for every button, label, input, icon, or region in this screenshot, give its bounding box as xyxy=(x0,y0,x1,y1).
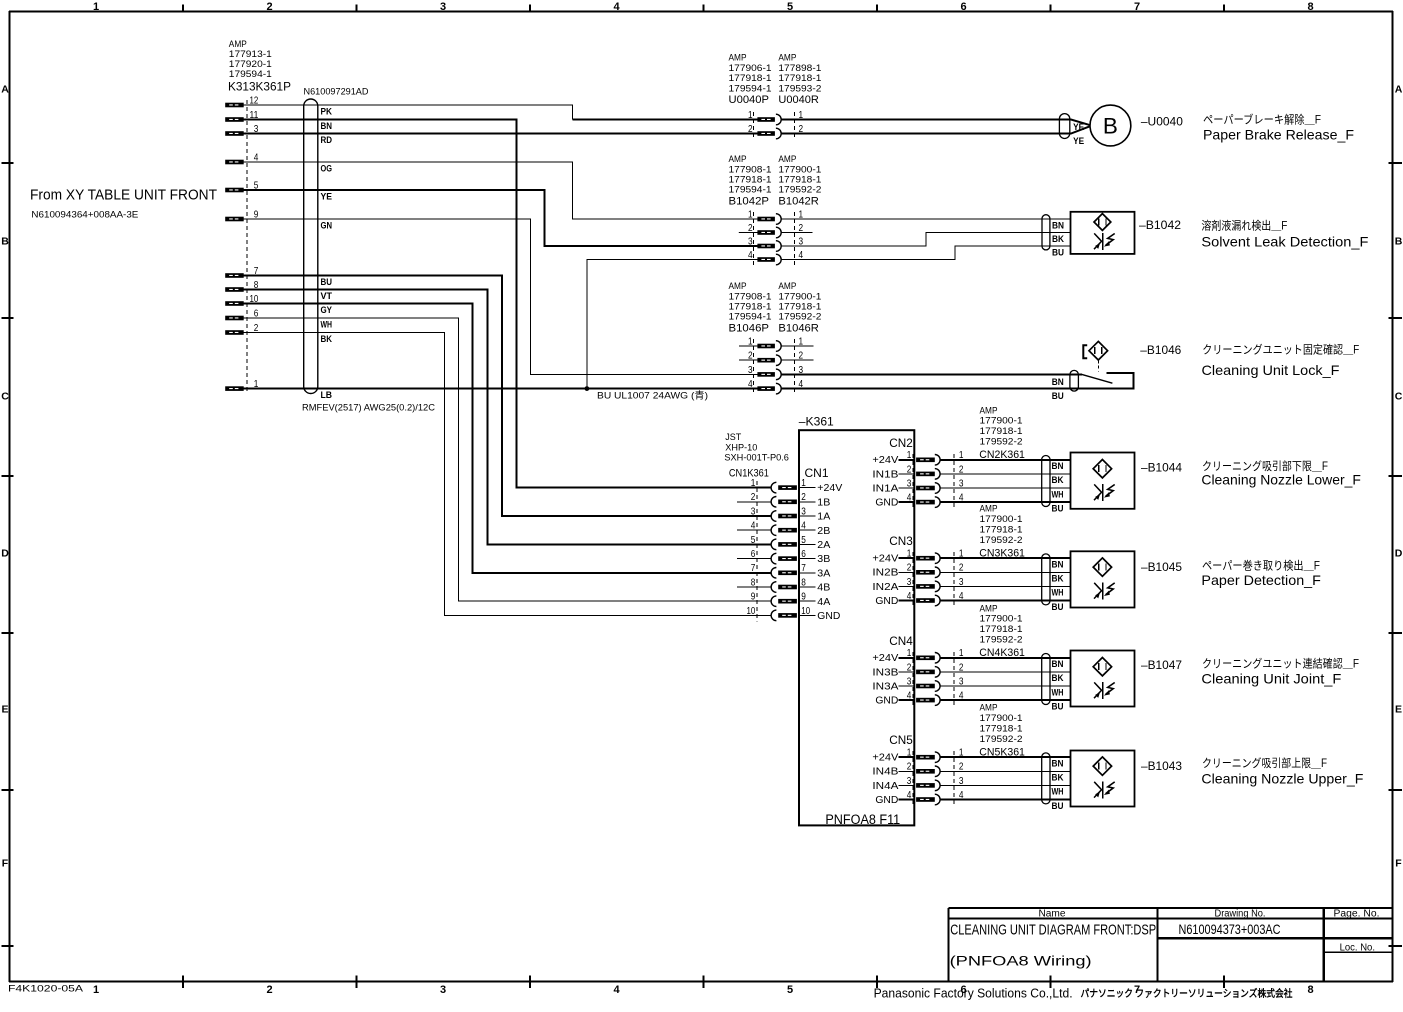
connector CN1 pin 8 (4B) xyxy=(737,576,831,593)
wire BN B1047 sensor pin 1 xyxy=(940,657,1070,659)
cable oval B1044 sensor wires xyxy=(1042,456,1050,507)
sensor B1043 photoelectric symbol xyxy=(1094,782,1115,799)
svg-text:Paper Detection_F: Paper Detection_F xyxy=(1201,572,1321,588)
svg-text:1: 1 xyxy=(748,335,753,347)
svg-text:2: 2 xyxy=(266,1,272,13)
svg-text:IN1B: IN1B xyxy=(872,469,898,480)
svg-text:8: 8 xyxy=(1307,1,1313,13)
svg-text:3: 3 xyxy=(751,505,756,517)
svg-text:AMP: AMP xyxy=(229,39,247,49)
svg-text:BK: BK xyxy=(1052,673,1064,684)
wire GN pin9 to B1046P pin3 xyxy=(244,219,758,374)
sensor B1042 proximity diamond symbol xyxy=(1094,214,1111,231)
lock switch B1046 bracket [ xyxy=(1083,345,1087,358)
svg-text:D: D xyxy=(1395,548,1403,560)
svg-text:177918-1: 177918-1 xyxy=(778,302,821,312)
svg-text:CN1: CN1 xyxy=(805,468,829,480)
svg-text:BU: BU xyxy=(321,277,333,288)
svg-text:179592-2: 179592-2 xyxy=(980,734,1023,744)
svg-text:From XY TABLE UNIT FRONT: From XY TABLE UNIT FRONT xyxy=(30,186,217,203)
connector CN3 P-side dashed line xyxy=(912,552,914,606)
svg-text:Name: Name xyxy=(1039,909,1066,920)
module K361 block outline (PNFOA8 F11) xyxy=(799,430,914,825)
svg-text:YE: YE xyxy=(321,191,333,202)
wire VT pin8 to CN1 pin5 (2A) xyxy=(244,290,772,545)
svg-text:BN: BN xyxy=(1052,659,1064,670)
svg-text:4: 4 xyxy=(907,690,912,702)
svg-text:RMFEV(2517) AWG25(0.2)/12C: RMFEV(2517) AWG25(0.2)/12C xyxy=(302,403,435,414)
svg-text:IN3B: IN3B xyxy=(872,667,898,678)
connector CN2 R-side dashed line xyxy=(953,454,955,508)
svg-text:GND: GND xyxy=(875,596,898,607)
connector CN5 pin 2 (IN4B) xyxy=(872,761,963,778)
svg-text:BK: BK xyxy=(1052,574,1064,585)
svg-text:BN: BN xyxy=(1052,461,1064,472)
svg-text:2: 2 xyxy=(266,984,272,996)
svg-text:3: 3 xyxy=(907,675,912,687)
connector K313K361P body dashed line xyxy=(246,100,248,394)
svg-text:Cleaning Nozzle Upper_F: Cleaning Nozzle Upper_F xyxy=(1201,770,1363,786)
svg-text:177900-1: 177900-1 xyxy=(980,416,1023,426)
connector CN1 pin 9 (4A) xyxy=(751,591,831,608)
svg-text:AMP: AMP xyxy=(980,703,998,713)
svg-text:1A: 1A xyxy=(817,512,830,523)
svg-text:2: 2 xyxy=(907,661,912,673)
svg-text:CN2: CN2 xyxy=(889,438,913,450)
svg-text:Paper Brake Release_F: Paper Brake Release_F xyxy=(1203,127,1354,143)
svg-text:179594-1: 179594-1 xyxy=(229,69,272,79)
connector CN2 pin 3 (IN1A) xyxy=(872,477,963,494)
svg-text:A: A xyxy=(1395,84,1403,96)
wire color labels BN BK WH BU (B1044) xyxy=(1052,461,1064,514)
svg-text:N610094364+008AA-3E: N610094364+008AA-3E xyxy=(31,210,138,221)
svg-text:+24V: +24V xyxy=(872,753,898,764)
cable oval B1043 sensor wires xyxy=(1042,753,1050,804)
svg-text:GY: GY xyxy=(321,305,333,316)
wire U0040R pin2 to solenoid B xyxy=(781,126,1090,133)
svg-text:OG: OG xyxy=(321,163,333,174)
sensor B1044 photoelectric symbol xyxy=(1094,484,1115,501)
svg-text:4: 4 xyxy=(613,1,620,13)
svg-text:GND: GND xyxy=(875,696,898,707)
svg-text:AMP: AMP xyxy=(778,154,796,164)
svg-text:1: 1 xyxy=(93,984,99,996)
wire WH B1044 sensor pin 3 xyxy=(940,487,1070,489)
connector K313K361P pin 8 (VT) xyxy=(225,279,258,292)
connector CN3K361 part numbers AMP 177900-1 177918-1 179592-2 xyxy=(980,504,1023,545)
svg-text:4: 4 xyxy=(907,590,912,602)
column labels top 1-8 xyxy=(93,1,1314,13)
connector B1046 pin 4 xyxy=(739,378,803,394)
wire BU B1047 sensor pin 4 xyxy=(940,699,1070,701)
svg-text:2: 2 xyxy=(907,562,912,574)
svg-text:E: E xyxy=(1395,704,1402,716)
svg-text:クリーニングユニット固定確認＿F: クリーニングユニット固定確認＿F xyxy=(1202,342,1359,356)
svg-text:B1046R: B1046R xyxy=(778,322,819,334)
wire color labels BN BK WH BU (B1043) xyxy=(1052,759,1064,812)
svg-text:AMP: AMP xyxy=(980,405,998,415)
cable oval B1045 sensor wires xyxy=(1042,554,1050,605)
svg-text:CN1K361: CN1K361 xyxy=(729,468,769,480)
connector CN4 R-side dashed line xyxy=(953,652,955,706)
connector K313K361P part numbers AMP 177913-1 177920-1 179594-1 xyxy=(229,39,272,79)
svg-text:5: 5 xyxy=(787,1,793,13)
svg-text:クリーニング吸引部上限＿F: クリーニング吸引部上限＿F xyxy=(1202,756,1327,770)
lock switch B1046 blade xyxy=(1082,374,1113,383)
svg-text:Cleaning Unit Joint_F: Cleaning Unit Joint_F xyxy=(1201,671,1341,687)
svg-text:179592-2: 179592-2 xyxy=(778,185,821,195)
connector CN1 pin 4 (2B) xyxy=(737,520,831,537)
svg-text:BN: BN xyxy=(1052,377,1064,388)
connector CN3 pin 3 (IN2A) xyxy=(872,576,963,593)
connector CN5 R-side dashed line xyxy=(953,751,955,805)
wire color labels PK BN RD OG YE GN BU VT GY WH BK LB xyxy=(321,106,333,401)
svg-text:C: C xyxy=(1,391,9,403)
svg-text:5: 5 xyxy=(751,534,756,546)
wire WH B1045 sensor pin 3 xyxy=(940,585,1070,587)
svg-text:AMP: AMP xyxy=(778,53,796,63)
grid row ticks right xyxy=(1389,163,1403,946)
svg-text:CLEANING UNIT DIAGRAM FRONT:DS: CLEANING UNIT DIAGRAM FRONT:DSP xyxy=(950,921,1156,938)
svg-text:IN1A: IN1A xyxy=(872,483,898,494)
wire B1042R pin4 to sensor BU xyxy=(781,246,1070,260)
svg-text:–U0040: –U0040 xyxy=(1141,115,1183,129)
wire LB pin1 to B1046P pin4 (BU bus) xyxy=(244,388,758,390)
wire WH B1047 sensor pin 3 xyxy=(940,685,1070,687)
svg-text:–B1047: –B1047 xyxy=(1141,658,1182,672)
connector K313K361P pin 7 (BU) xyxy=(225,265,258,278)
connector CN3 pin 2 (IN2B) xyxy=(872,562,963,579)
svg-text:Panasonic Factory Solutions Co: Panasonic Factory Solutions Co.,Ltd. xyxy=(874,987,1073,1001)
svg-text:8: 8 xyxy=(1307,984,1313,996)
svg-text:4: 4 xyxy=(613,984,620,996)
svg-text:177918-1: 177918-1 xyxy=(980,525,1023,535)
svg-text:BN: BN xyxy=(1052,560,1064,571)
connector U0040P part numbers AMP 177906-1 177918-1 179594-1 xyxy=(729,53,772,106)
svg-text:4A: 4A xyxy=(817,597,830,608)
connector B1042 pin 3 xyxy=(739,235,803,251)
wire BN B1045 sensor pin 1 xyxy=(940,557,1070,559)
sensor B1045 photoelectric symbol xyxy=(1094,583,1115,600)
junction dot BU bus xyxy=(585,386,590,391)
row labels left A-F xyxy=(1,84,9,870)
svg-text:B1042P: B1042P xyxy=(729,195,770,207)
svg-text:CN4: CN4 xyxy=(889,636,913,648)
svg-text:N610094373+003AC: N610094373+003AC xyxy=(1179,921,1281,937)
svg-text:WH: WH xyxy=(1052,489,1064,500)
svg-text:YE: YE xyxy=(1073,122,1084,133)
svg-text:179593-2: 179593-2 xyxy=(778,83,821,93)
svg-text:D: D xyxy=(1,548,9,560)
svg-text:177920-1: 177920-1 xyxy=(229,59,272,69)
connector pair B1042P/B1042R dashed lines xyxy=(753,212,794,266)
svg-text:Page. No.: Page. No. xyxy=(1334,909,1380,920)
svg-text:GND: GND xyxy=(875,498,898,509)
svg-text:CN3: CN3 xyxy=(889,536,913,548)
connector CN5 P-side dashed line xyxy=(912,751,914,805)
svg-text:C: C xyxy=(1395,391,1403,403)
wire BK B1045 sensor pin 2 xyxy=(940,571,1070,573)
svg-text:YE: YE xyxy=(1073,136,1084,147)
svg-text:177913-1: 177913-1 xyxy=(229,49,272,59)
lock switch B1046 actuator dashed link xyxy=(1097,360,1099,371)
svg-text:B: B xyxy=(1,236,9,248)
svg-text:10: 10 xyxy=(747,605,756,617)
connector B1042 pin 4 xyxy=(739,249,803,265)
svg-text:–B1045: –B1045 xyxy=(1141,560,1182,574)
connector CN2K361 part numbers AMP 177900-1 177918-1 179592-2 xyxy=(980,405,1023,446)
cable oval B1046 sensor wires xyxy=(1070,370,1079,391)
connector CN1K361 JST part numbers XHP-10 SXH-001T-P0.6 xyxy=(724,432,789,463)
sensor B1042 photoelectric symbol xyxy=(1094,233,1115,250)
svg-text:2B: 2B xyxy=(817,526,830,537)
connector pair U0040P/U0040R dashed lines xyxy=(753,112,794,140)
svg-text:BU: BU xyxy=(1052,602,1064,613)
connector CN5 pin 4 (GND) xyxy=(875,789,963,806)
svg-text:3: 3 xyxy=(907,576,912,588)
svg-text:179594-1: 179594-1 xyxy=(729,185,772,195)
wire color labels BN BK WH BU (B1047) xyxy=(1052,659,1064,712)
connector B1046 pin 3 xyxy=(739,364,803,380)
svg-text:U0040R: U0040R xyxy=(778,94,819,106)
connector CN5 pin 3 (IN4A) xyxy=(872,775,963,792)
connector CN1 pin 5 (2A) xyxy=(751,534,831,551)
svg-text:2A: 2A xyxy=(817,540,830,551)
svg-text:WH: WH xyxy=(321,319,333,330)
connector K313K361P pin 10 (GY) xyxy=(225,293,258,306)
svg-text:N610097291AD: N610097291AD xyxy=(304,87,369,98)
row labels right A-F xyxy=(1395,84,1403,870)
connector CN3 pin 4 (GND) xyxy=(875,590,963,607)
connector pair B1046P/B1046R dashed lines xyxy=(753,339,794,395)
svg-text:GND: GND xyxy=(875,795,898,806)
svg-text:XHP-10: XHP-10 xyxy=(725,442,757,452)
svg-text:3A: 3A xyxy=(817,568,830,579)
svg-text:3B: 3B xyxy=(817,554,830,565)
connector CN4K361 part numbers AMP 177900-1 177918-1 179592-2 xyxy=(980,603,1023,644)
svg-text:177900-1: 177900-1 xyxy=(980,514,1023,524)
svg-text:BN: BN xyxy=(1052,220,1064,231)
wire BN pin11 to CN1 pin1 (+24V) xyxy=(244,120,772,488)
svg-text:JST: JST xyxy=(725,432,741,442)
svg-text:AMP: AMP xyxy=(980,504,998,514)
svg-text:IN4A: IN4A xyxy=(872,781,898,792)
svg-text:IN4B: IN4B xyxy=(872,767,898,778)
svg-text:177900-1: 177900-1 xyxy=(778,291,821,301)
sensor B1045 proximity diamond symbol xyxy=(1093,558,1111,576)
svg-text:179592-2: 179592-2 xyxy=(980,635,1023,645)
svg-text:177900-1: 177900-1 xyxy=(980,713,1023,723)
connector B1046R part numbers AMP 177900-1 177918-1 179592-2 xyxy=(778,281,821,334)
svg-text:+24V: +24V xyxy=(872,653,898,664)
svg-text:WH: WH xyxy=(1052,588,1064,599)
sensor box B1042 xyxy=(1071,212,1135,254)
connector CN1 pin 7 (3A) xyxy=(751,562,831,579)
connector CN3 pin 1 (+24V) xyxy=(872,548,963,565)
connector CN5K361 part numbers AMP 177900-1 177918-1 179592-2 xyxy=(980,703,1023,744)
svg-text:4B: 4B xyxy=(817,583,830,594)
svg-text:7: 7 xyxy=(751,562,756,574)
connector CN1 pin 6 (3B) xyxy=(737,548,831,565)
svg-text:179594-1: 179594-1 xyxy=(729,83,772,93)
wire BU B1043 sensor pin 4 xyxy=(940,799,1070,801)
svg-text:K313K361P: K313K361P xyxy=(228,81,291,93)
connector K313K361P pin 9 (GN) xyxy=(225,208,258,221)
svg-text:Loc. No.: Loc. No. xyxy=(1340,942,1375,953)
svg-text:BU: BU xyxy=(1052,503,1064,514)
connector CN4 P-side dashed line xyxy=(912,652,914,706)
svg-text:AMP: AMP xyxy=(729,53,747,63)
svg-text:Cleaning Nozzle Lower_F: Cleaning Nozzle Lower_F xyxy=(1201,472,1361,488)
svg-text:1: 1 xyxy=(93,1,99,13)
svg-text:CN5: CN5 xyxy=(889,735,913,747)
svg-text:3: 3 xyxy=(440,984,446,996)
sensor B1043 proximity diamond symbol xyxy=(1093,757,1111,775)
svg-text:E: E xyxy=(1,704,8,716)
connector U0040 pin 1 xyxy=(739,109,803,125)
connector CN3 R-side dashed line xyxy=(953,552,955,606)
svg-text:AMP: AMP xyxy=(729,154,747,164)
wire BK pin2 to CN1 pin10 (GND) xyxy=(244,333,772,616)
svg-text:B: B xyxy=(1395,236,1403,248)
column labels bottom 1-8 xyxy=(93,984,1314,996)
wire BK B1044 sensor pin 2 xyxy=(940,473,1070,475)
wire BK B1043 sensor pin 2 xyxy=(940,770,1070,772)
connector B1046 pin 1 (unconnected stub) xyxy=(739,335,814,351)
svg-text:177900-1: 177900-1 xyxy=(778,164,821,174)
svg-text:179592-2: 179592-2 xyxy=(980,535,1023,545)
connector B1042 pin 2 (unconnected stub) xyxy=(739,222,813,238)
solenoid U0040 circle B (paper brake) xyxy=(1090,105,1131,146)
svg-text:BU: BU xyxy=(1052,391,1064,402)
wire BU B1044 sensor pin 4 xyxy=(940,501,1070,503)
svg-text:2: 2 xyxy=(751,491,756,503)
cable oval B1047 sensor wires xyxy=(1042,654,1050,705)
wire B1046R pin3 BN to lock switch xyxy=(781,373,1082,375)
svg-text:2: 2 xyxy=(748,350,753,362)
connector CN1 pin 1 (+24V) xyxy=(751,477,843,494)
svg-text:AMP: AMP xyxy=(729,281,747,291)
svg-text:–B1046: –B1046 xyxy=(1140,343,1181,357)
svg-text:4: 4 xyxy=(907,789,912,801)
svg-text:U0040P: U0040P xyxy=(729,94,770,106)
svg-text:177918-1: 177918-1 xyxy=(980,624,1023,634)
sensor box B1044 xyxy=(1071,453,1135,509)
cable bundle oval N610097291AD xyxy=(304,99,318,394)
connector CN4 pin 2 (IN3B) xyxy=(872,661,963,678)
svg-text:PK: PK xyxy=(321,106,333,117)
connector K313K361P pin 1 (LB) xyxy=(225,378,258,391)
connector CN2 P-side dashed line xyxy=(912,454,914,508)
svg-text:1: 1 xyxy=(751,477,756,489)
svg-text:A: A xyxy=(1,84,9,96)
wire YE pin5 to B1042P pin3 xyxy=(244,190,758,246)
connector U0040R part numbers AMP 177898-1 177918-1 179593-2 xyxy=(778,53,821,106)
svg-text:F4K1020-05A: F4K1020-05A xyxy=(8,983,84,994)
svg-text:2: 2 xyxy=(907,463,912,475)
svg-text:BN: BN xyxy=(1052,759,1064,770)
title block outline xyxy=(949,908,1393,982)
svg-text:3: 3 xyxy=(440,1,446,13)
sensor B1047 proximity diamond symbol xyxy=(1093,658,1111,676)
cable oval B1042 sensor wires xyxy=(1042,215,1050,250)
svg-text:PNFOA8 F11: PNFOA8 F11 xyxy=(825,812,900,827)
wire WH pin6 to CN1 pin9 (4A) xyxy=(244,318,772,601)
connector B1042 pin 1 xyxy=(739,208,803,224)
svg-text:1: 1 xyxy=(907,449,912,461)
svg-text:BK: BK xyxy=(1052,234,1064,245)
svg-text:BK: BK xyxy=(1052,475,1064,486)
wire color labels BN BK WH BU (B1045) xyxy=(1052,560,1064,613)
connector CN5 pin 1 (+24V) xyxy=(872,747,963,764)
svg-text:177908-1: 177908-1 xyxy=(729,164,772,174)
svg-text:4: 4 xyxy=(907,492,912,504)
wire PK pin12 to U0040P pin1 xyxy=(244,105,573,120)
svg-text:177918-1: 177918-1 xyxy=(980,426,1023,436)
sensor box B1045 xyxy=(1071,551,1135,607)
lock switch B1046 proximity diamond xyxy=(1089,341,1108,360)
svg-text:1: 1 xyxy=(907,747,912,759)
connector K313K361P pin 5 (YE) xyxy=(225,179,258,192)
svg-text:–B1043: –B1043 xyxy=(1141,759,1182,773)
svg-text:179592-2: 179592-2 xyxy=(778,312,821,322)
wire BN B1044 sensor pin 1 xyxy=(940,459,1070,461)
svg-text:6: 6 xyxy=(960,1,966,13)
svg-text:+24V: +24V xyxy=(817,483,842,494)
connector CN2 pin 4 (GND) xyxy=(875,492,963,509)
svg-text:+24V: +24V xyxy=(872,455,898,466)
connector CN1 pin 10 (GND) xyxy=(747,605,841,622)
connector CN1 pin 2 (1B) xyxy=(737,491,831,508)
svg-text:LB: LB xyxy=(321,390,333,401)
svg-text:177908-1: 177908-1 xyxy=(729,291,772,301)
svg-text:VT: VT xyxy=(321,291,333,302)
svg-text:Cleaning Unit Lock_F: Cleaning Unit Lock_F xyxy=(1202,362,1340,378)
wire BU B1045 sensor pin 4 xyxy=(940,600,1070,602)
svg-text:179592-2: 179592-2 xyxy=(980,437,1023,447)
sensor box B1043 xyxy=(1071,751,1135,807)
svg-text:177918-1: 177918-1 xyxy=(980,724,1023,734)
svg-text:3: 3 xyxy=(907,477,912,489)
svg-text:GN: GN xyxy=(321,220,333,231)
connector B1046 pin 2 (unconnected stub) xyxy=(739,350,814,366)
svg-text:2: 2 xyxy=(907,761,912,773)
wire BN B1043 sensor pin 1 xyxy=(940,756,1070,758)
svg-text:177906-1: 177906-1 xyxy=(729,63,772,73)
svg-text:AMP: AMP xyxy=(980,603,998,613)
svg-text:BU UL1007 24AWG (青): BU UL1007 24AWG (青) xyxy=(597,389,708,401)
svg-text:8: 8 xyxy=(751,576,756,588)
connector K313K361P pin 12 (PK) xyxy=(225,94,258,107)
svg-text:ペーパーブレーキ解除＿F: ペーパーブレーキ解除＿F xyxy=(1203,112,1321,126)
svg-text:3: 3 xyxy=(907,775,912,787)
svg-text:BU: BU xyxy=(1052,701,1064,712)
connector CN2 pin 2 (IN1B) xyxy=(872,463,963,480)
grid column ticks bottom xyxy=(183,975,1224,988)
svg-text:9: 9 xyxy=(751,591,756,603)
connector CN4 pin 4 (GND) xyxy=(875,690,963,707)
connector CN4 pin 1 (+24V) xyxy=(872,647,963,664)
svg-text:–K361: –K361 xyxy=(799,416,834,428)
wire B1042R pin3 to sensor BK xyxy=(781,233,1070,247)
connector B1042R part numbers AMP 177900-1 177918-1 179592-2 xyxy=(778,154,821,207)
connector B1042P part numbers AMP 177908-1 177918-1 179594-1 xyxy=(729,154,772,207)
connector CN1 pin 3 (1A) xyxy=(751,505,831,522)
svg-text:177918-1: 177918-1 xyxy=(729,73,772,83)
connector U0040 pin 2 xyxy=(739,123,803,139)
sensor box B1047 xyxy=(1071,651,1135,707)
connector CN1 R-side dashed line xyxy=(756,481,758,622)
